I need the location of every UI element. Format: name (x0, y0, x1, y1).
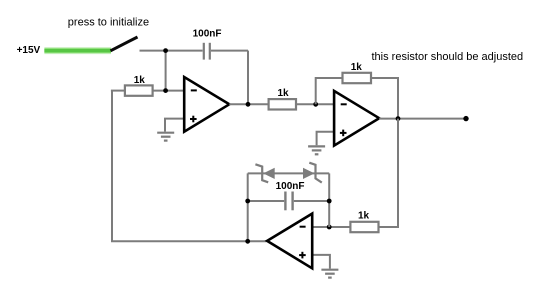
node output endpoint dot (463, 116, 468, 121)
svg-text:1k: 1k (278, 88, 290, 99)
svg-text:100nF: 100nF (193, 29, 222, 40)
resistor R4 body (350, 222, 378, 232)
wire feedback left vertical rail (111, 91, 113, 242)
wire C1 right plate to right corner (211, 50, 248, 52)
wire C1 feedback vertical down to U1 output (247, 51, 249, 105)
node U2 output junction (396, 116, 401, 121)
wire R1 to U1 inverting input (153, 90, 184, 92)
capacitor C1 plates (204, 43, 210, 60)
zener diode D1 (left, cathode left) (255, 164, 274, 182)
svg-text:1k: 1k (351, 62, 363, 73)
wire node A to C1 left plate (166, 50, 203, 52)
op-amp U1 minus pin mark (191, 89, 197, 91)
resistor R2 body (269, 99, 296, 109)
wire zener branch horizontal (248, 172, 330, 174)
svg-text:+15V: +15V (17, 45, 41, 56)
zener diode D2 (right, cathode right) (303, 163, 322, 183)
wire R2 to U2 inverting input (296, 103, 334, 105)
wire feedback from U3 output: left lead of R1 (111, 90, 125, 92)
node A junction (163, 48, 168, 53)
wire feedback bottom horizontal to U3 output (111, 240, 266, 242)
op-amp U3 (points left) (267, 214, 312, 269)
node U2 inverting input junction (313, 102, 318, 107)
wire U2 non-inverting input to ground (317, 132, 334, 146)
node U1 inverting input junction (163, 88, 168, 93)
switch SW1 open lever (press to initialize) (111, 37, 138, 51)
op-amp U2 (334, 91, 379, 146)
node U3 inverting input junction (327, 225, 332, 230)
svg-text:this resistor should be adjust: this resistor should be adjusted (372, 51, 524, 63)
wire U2 output to endpoint (379, 118, 466, 120)
ground GND2 (U2 +) (308, 146, 325, 154)
wire U1 output to R2 (229, 103, 268, 105)
node left rail / C2 junction (245, 199, 250, 204)
wire U2 feedback up from inverting node (316, 78, 343, 104)
svg-text:100nF: 100nF (276, 181, 305, 192)
wire R4 to U3 inverting input (312, 226, 350, 228)
ground GND1 (U1 +) (157, 133, 174, 141)
wire U2 output down to R4 (379, 119, 399, 227)
op-amp U1 (184, 77, 229, 132)
op-amp U1 plus pin mark (190, 116, 197, 123)
wire R3 to U2 output node (371, 78, 398, 119)
svg-text:1k: 1k (358, 211, 370, 222)
op-amp U3 minus pin mark (300, 226, 306, 228)
wire switch contact to node A (140, 50, 166, 52)
wire +15V green supply wire (44, 47, 111, 54)
wire right rail of zener/cap block (328, 173, 330, 227)
wire node A down to U1 inverting input (165, 51, 167, 91)
op-amp U2 plus pin mark (340, 130, 347, 137)
wire U1 non-inverting input to ground (165, 119, 184, 132)
node right rail / C2 junction (327, 199, 332, 204)
wire cap branch left segment (248, 200, 285, 202)
wire U3 non-inverting input to ground (312, 255, 330, 269)
op-amp U3 plus pin mark (299, 252, 306, 259)
resistor R1 body (125, 85, 153, 95)
node left rail / U3 output junction (245, 239, 250, 244)
capacitor C2 plates (285, 192, 292, 211)
svg-text:press to initialize: press to initialize (68, 16, 149, 28)
ground GND3 (U3 +) (321, 270, 338, 278)
node U1 output junction (246, 102, 251, 107)
wire left rail of zener/cap block (247, 173, 249, 241)
wire cap branch right segment (294, 200, 329, 202)
op-amp U2 minus pin mark (341, 103, 347, 105)
resistor R3 body (feedback, to be adjusted) (343, 73, 372, 83)
